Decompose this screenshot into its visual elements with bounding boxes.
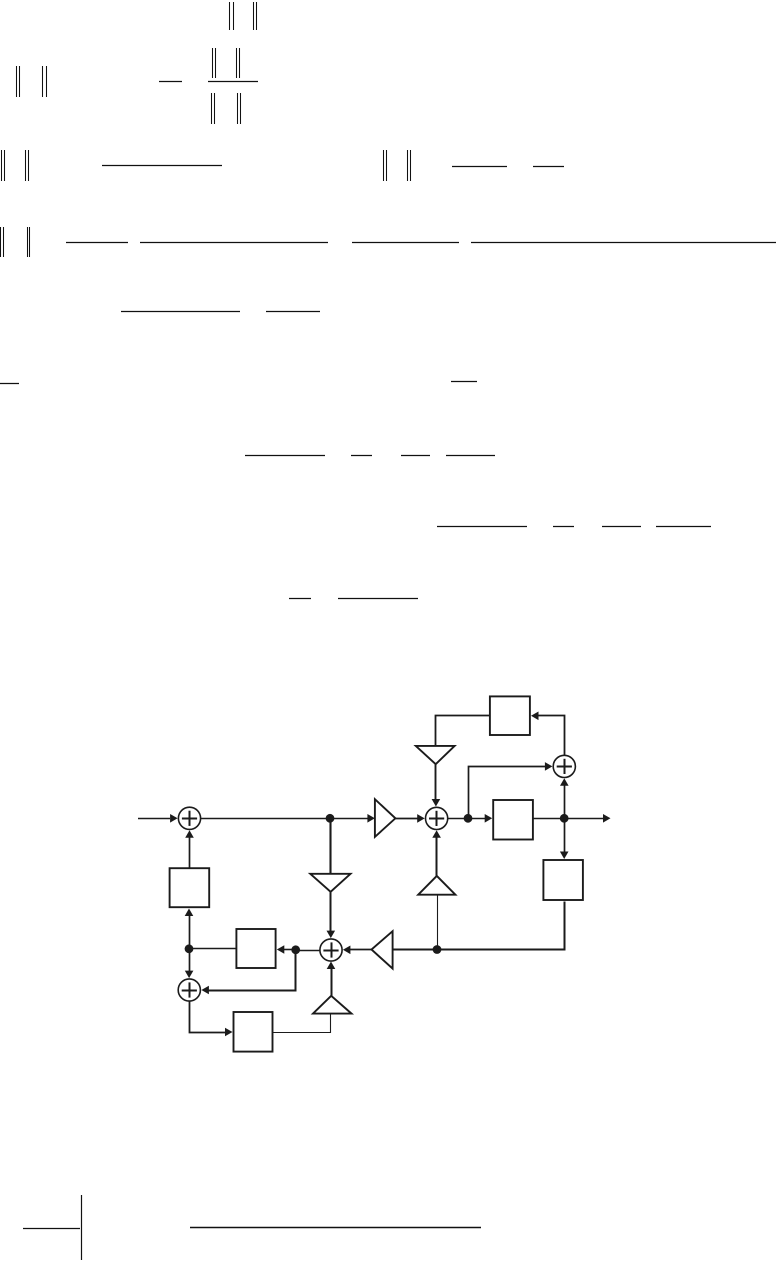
- wire B1 left then down to gain G2: [436, 716, 490, 746]
- arrowhead into S5 top: [185, 971, 194, 979]
- gain G6 triangle up: [313, 996, 352, 1014]
- block B1: [490, 696, 530, 735]
- wire G4 apex to S4: [349, 949, 372, 951]
- footer rule: [190, 1227, 481, 1229]
- norm bars row3 left pair2: [26, 150, 29, 181]
- arrowhead into B3 top: [560, 852, 569, 860]
- row8 rule 2: [553, 526, 574, 528]
- row5 rule 2: [266, 311, 320, 313]
- arrowhead into S5 right: [201, 986, 209, 995]
- node J6: [185, 944, 194, 953]
- row4 rule 2: [140, 242, 328, 244]
- wire J2 to block B2: [468, 818, 486, 820]
- summing junction S4: [320, 939, 342, 961]
- wire output arrow line: [564, 818, 604, 820]
- wire J6 down to S5: [189, 949, 191, 972]
- fraction numerator norm bars pair2: [237, 48, 240, 78]
- arrowhead into S3 left: [417, 814, 425, 823]
- wire J3 down to B3: [564, 818, 566, 852]
- arrowhead into B5 bottom: [185, 909, 194, 917]
- norm bars row3 right pair2: [408, 150, 411, 181]
- wire S4 left to node J5: [296, 950, 320, 952]
- wire G2 apex to S3 top: [435, 764, 437, 800]
- fraction denominator norm bars pair1: [212, 93, 215, 124]
- arrowhead into S2 bottom: [560, 778, 569, 786]
- row7 rule 1: [245, 455, 325, 457]
- wire B3 bottom down then left to G4 base: [393, 902, 565, 950]
- wire S2 top up then left to B1: [539, 716, 565, 756]
- row6 left dash: [0, 383, 19, 385]
- wire up-gain G5 apex to S3 bottom: [436, 836, 438, 876]
- norm bars row3 right pair1: [384, 150, 387, 181]
- row8 rule 4: [656, 526, 711, 528]
- wire input arrow line: [138, 818, 170, 820]
- DIAGRAM: [138, 696, 611, 1051]
- wire J5 to block B4: [284, 949, 296, 951]
- wire B2 to node J3: [533, 818, 564, 820]
- wire J2 up then right to S2: [469, 767, 547, 819]
- arrowhead into S4 top: [327, 931, 336, 939]
- row6 right dash: [451, 381, 477, 383]
- row8 rule 1: [437, 526, 527, 528]
- wire S5 down then right to B6: [190, 1002, 227, 1033]
- arrowhead into S4 right: [343, 946, 351, 955]
- arrowhead into B4 right: [277, 945, 285, 954]
- wire J3 up to S2: [564, 784, 566, 818]
- arrowhead into S1 bottom: [185, 830, 194, 838]
- output arrowhead: [603, 814, 611, 823]
- gain G3 triangle down: [310, 874, 350, 892]
- arrowhead into gain G1: [367, 814, 375, 823]
- footer vertical mark: [81, 1195, 83, 1260]
- row3 rule 2: [452, 166, 507, 168]
- wire G5 base down to J4: [437, 895, 439, 950]
- fraction numerator norm bars pair1: [213, 48, 216, 78]
- arrowhead into S2 left: [545, 762, 553, 771]
- node J4: [433, 945, 442, 954]
- norm bars row2 left pair1: [17, 66, 20, 97]
- row7 rule 3: [401, 455, 430, 457]
- arrowhead into S3 top: [432, 799, 441, 807]
- row3 rule 3: [533, 166, 564, 168]
- gain G4 triangle left: [372, 931, 393, 968]
- node J2: [464, 814, 473, 823]
- arrowhead into B1 right: [531, 712, 539, 721]
- summing junction S3: [426, 807, 448, 829]
- wire B5 top to S1 bottom: [189, 836, 191, 868]
- arrowhead into S4 bottom: [327, 962, 336, 970]
- wire J6 up to B5: [189, 914, 191, 949]
- row8 rule 3: [602, 526, 641, 528]
- norm bars row4 pair2: [28, 227, 30, 257]
- wire B6 right then up to G6 base: [273, 1014, 331, 1033]
- wire G6 apex to S4 bottom: [331, 968, 333, 996]
- summing junction S5: [178, 979, 200, 1001]
- fraction bar: [208, 81, 258, 83]
- gain G5 triangle up: [418, 876, 455, 895]
- row4 rule 1: [66, 242, 128, 244]
- node J5: [291, 945, 300, 954]
- fraction denominator norm bars pair2: [238, 93, 241, 124]
- block B5: [170, 868, 210, 907]
- summing junction S2: [553, 755, 575, 777]
- block B6: [234, 1012, 273, 1052]
- row9 rule 1: [289, 598, 311, 600]
- wire S3 to node J2: [448, 818, 468, 820]
- row4 rule 3: [352, 242, 459, 244]
- minus sign row2: [159, 81, 182, 83]
- gain G2 triangle down: [416, 746, 455, 764]
- row7 rule 4: [446, 455, 495, 457]
- wire J5 down then left to S5: [208, 950, 296, 991]
- wire B4 left to node J6: [189, 948, 236, 950]
- node J1: [326, 814, 335, 823]
- row4 rule 4: [471, 242, 776, 244]
- block B4: [236, 929, 275, 968]
- arrowhead into B2: [485, 814, 493, 823]
- wire J1 down to gain G3: [329, 818, 331, 874]
- summing junction S1: [178, 807, 200, 829]
- footer horizontal mark: [23, 1228, 80, 1230]
- wire S1 to node J1: [201, 818, 330, 820]
- block B2: [493, 800, 533, 840]
- row5 rule 1: [121, 311, 240, 313]
- row3 rule 1: [102, 165, 222, 167]
- row9 rule 2: [338, 598, 418, 600]
- row7 rule 2: [351, 455, 372, 457]
- arrowhead into S3 bottom: [432, 830, 441, 838]
- block B3: [543, 860, 583, 900]
- wire G1 to S3: [395, 818, 418, 820]
- norm bars row1 pair1: [230, 2, 234, 30]
- node J3: [560, 814, 569, 823]
- wire J1 to gain triangle: [330, 818, 368, 820]
- norm bars row1 pair2: [254, 2, 257, 30]
- norm bars row4 pair1: [1, 227, 4, 257]
- gain G1 triangle right: [375, 799, 396, 837]
- norm bars row2 left pair2: [43, 66, 47, 97]
- arrowhead into B6 left: [225, 1028, 233, 1037]
- input arrowhead: [170, 814, 178, 823]
- norm bars row3 left pair1: [2, 150, 5, 181]
- wire G3 apex to S4 top: [330, 892, 332, 932]
